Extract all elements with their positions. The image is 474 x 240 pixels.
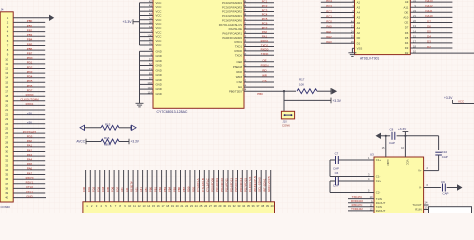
svg-text:15: 15 (152, 204, 156, 208)
svg-text:32: 32 (233, 204, 237, 208)
svg-text:18: 18 (166, 204, 170, 208)
U2 right pins with net labels (410, 1, 452, 3)
svg-text:PD3: PD3 (27, 70, 33, 74)
svg-text:35: 35 (247, 204, 251, 208)
svg-text:R1IN: R1IN (415, 208, 421, 212)
svg-text:R16: R16 (104, 136, 110, 140)
svg-text:A01: A01 (120, 187, 124, 192)
U5 VCC top pin 16 (404, 136, 406, 157)
svg-text:PA2: PA2 (27, 148, 33, 152)
svg-text:40: 40 (5, 196, 8, 200)
svg-text:A2: A2 (357, 0, 361, 4)
U5 GND top pin 15 (385, 136, 387, 157)
svg-text:PC4/GPIFADR4: PC4/GPIFADR4 (222, 1, 242, 5)
svg-text:33: 33 (237, 204, 241, 208)
svg-text:V-: V- (419, 186, 422, 190)
svg-text:29: 29 (5, 145, 8, 149)
svg-text:T1OUT: T1OUT (412, 203, 421, 207)
svg-text:PA1: PA1 (27, 144, 33, 148)
svg-text:+5V: +5V (27, 121, 32, 125)
connector J4 CON40 (0, 12, 13, 202)
svg-text:PC15/A15: PC15/A15 (23, 130, 37, 134)
svg-text:RD#: RD# (236, 70, 242, 74)
svg-text:PA7: PA7 (27, 171, 33, 175)
svg-text:+3.3V: +3.3V (123, 20, 133, 24)
wire tee to +3.3V port (284, 99, 331, 101)
svg-text:TXD1: TXD1 (235, 45, 243, 49)
svg-text:PC1/GPIFADR1: PC1/GPIFADR1 (222, 14, 242, 18)
svg-text:GND: GND (386, 160, 390, 166)
svg-text:32: 32 (5, 159, 8, 163)
svg-text:PB0: PB0 (27, 19, 33, 23)
svg-text:A11: A11 (125, 187, 129, 192)
svg-text:16: 16 (5, 85, 8, 89)
svg-text:CTL2/FLC: CTL2/FLC (206, 177, 210, 192)
svg-text:RXD0: RXD0 (26, 93, 34, 97)
svg-text:PB7: PB7 (182, 186, 186, 192)
svg-text:35: 35 (5, 173, 8, 177)
capacitor C8 CAP (386, 135, 390, 137)
svg-text:15: 15 (5, 80, 8, 84)
svg-text:PB2: PB2 (27, 28, 33, 32)
svg-text:10: 10 (5, 57, 8, 61)
svg-text:PB2: PB2 (158, 186, 162, 192)
svg-text:CTL0: CTL0 (26, 185, 33, 189)
svg-text:18: 18 (5, 94, 8, 98)
svg-text:PC0/GPIFADR0: PC0/GPIFADR0 (222, 18, 242, 22)
svg-text:13: 13 (5, 71, 8, 75)
svg-text:WR#: WR# (236, 75, 243, 79)
U1 VCC pins with bus (140, 2, 154, 4)
svg-text:PC2/GPIFADR2: PC2/GPIFADR2 (222, 10, 242, 14)
svg-text:+3.3V: +3.3V (131, 140, 140, 144)
svg-text:GND: GND (156, 59, 162, 63)
svg-text:PD5/FD13: PD5/FD13 (234, 178, 238, 192)
svg-text:PD5: PD5 (27, 135, 33, 139)
U5 data pins with net labels (348, 198, 374, 200)
svg-text:17: 17 (161, 204, 165, 208)
svg-text:C1-: C1- (376, 175, 381, 179)
svg-text:PC3: PC3 (326, 4, 332, 8)
resistor R16 680 (101, 139, 119, 144)
svg-text:DA13: DA13 (425, 0, 433, 3)
ground arrow right of C9 (457, 184, 463, 190)
svg-text:CAP: CAP (443, 192, 449, 196)
svg-text:21: 21 (180, 204, 184, 208)
U1 right pins lower group (244, 61, 274, 63)
svg-text:RXD1: RXD1 (261, 39, 269, 43)
svg-text:FD5: FD5 (106, 186, 110, 192)
svg-text:22: 22 (5, 113, 8, 117)
svg-text:PD7/FD15: PD7/FD15 (243, 178, 247, 192)
svg-text:26: 26 (204, 204, 208, 208)
svg-text:PD1: PD1 (27, 61, 33, 65)
svg-text:RDY0: RDY0 (26, 176, 34, 180)
wire C10 to U5 V+ pin 2 (424, 170, 439, 172)
svg-text:30: 30 (223, 204, 227, 208)
svg-text:PC1: PC1 (326, 14, 332, 18)
svg-text:TXD0-R2: TXD0-R2 (351, 207, 363, 211)
svg-text:RXD1: RXD1 (235, 40, 243, 44)
svg-text:WAKEUP-N: WAKEUP-N (253, 176, 257, 192)
svg-text:PC5: PC5 (262, 17, 268, 21)
svg-text:CON6: CON6 (282, 124, 290, 128)
resistor R15 (101, 125, 119, 130)
svg-text:D6: D6 (427, 24, 431, 28)
svg-text:PD2/FD10: PD2/FD10 (220, 178, 224, 192)
svg-text:TXD0: TXD0 (261, 52, 269, 56)
U5 pin1 C1+ loop with capacitor C7 (338, 159, 374, 161)
svg-text:20: 20 (5, 103, 8, 107)
svg-text:RD1: RD1 (191, 186, 195, 192)
svg-text:FD3: FD3 (96, 186, 100, 192)
U1 right port pins upper group (244, 2, 274, 4)
svg-text:10K: 10K (299, 82, 304, 86)
connector J4 pins 1-40 with net labels (7, 16, 49, 20)
svg-text:CY7C68013-128AC: CY7C68013-128AC (157, 110, 188, 114)
svg-text:CS#: CS# (237, 80, 243, 84)
svg-text:DA10: DA10 (425, 14, 433, 18)
svg-text:14: 14 (5, 76, 8, 80)
svg-text:RD: RD (262, 69, 266, 73)
svg-text:PB6: PB6 (177, 186, 181, 192)
svg-text:A31: A31 (134, 187, 138, 192)
svg-text:V+: V+ (418, 169, 422, 173)
svg-text:C2+: C2+ (376, 179, 382, 183)
svg-text:39: 39 (5, 191, 8, 195)
svg-text:25: 25 (199, 204, 203, 208)
svg-text:27: 27 (5, 136, 8, 140)
svg-text:RESET#: RESET# (130, 181, 134, 192)
svg-text:+5V: +5V (27, 111, 32, 115)
svg-text:31: 31 (228, 204, 232, 208)
svg-text:A51: A51 (144, 187, 148, 192)
svg-text:PA5: PA5 (27, 162, 33, 166)
svg-text:24: 24 (5, 122, 8, 126)
svg-text:OE: OE (404, 10, 408, 14)
svg-text:17: 17 (5, 90, 8, 94)
svg-text:D6: D6 (405, 31, 409, 35)
svg-text:D7: D7 (427, 19, 431, 23)
svg-text:CAP: CAP (333, 166, 339, 170)
svg-text:D2: D2 (427, 45, 431, 49)
svg-text:A10: A10 (403, 16, 408, 20)
svg-text:GND: GND (156, 83, 162, 87)
svg-text:26: 26 (5, 131, 8, 135)
svg-text:U3: U3 (370, 153, 374, 157)
power port +3.3V near R17 (330, 98, 332, 104)
svg-text:13: 13 (142, 204, 146, 208)
svg-text:37: 37 (256, 204, 260, 208)
power port +3.3V at U5 VCC (404, 135, 406, 137)
svg-text:PD6: PD6 (27, 84, 33, 88)
svg-text:12: 12 (5, 67, 8, 71)
wire R15 to port (119, 127, 131, 129)
svg-text:A9: A9 (405, 0, 409, 4)
svg-text:PD0: PD0 (27, 56, 33, 60)
svg-text:GND: GND (156, 64, 162, 68)
svg-text:CLKOUT24: CLKOUT24 (248, 176, 252, 192)
svg-text:D5: D5 (427, 30, 431, 34)
svg-text:PA3: PA3 (326, 40, 332, 44)
svg-text:11: 11 (133, 204, 136, 208)
svg-text:CE: CE (404, 21, 408, 25)
svg-text:PB6: PB6 (27, 47, 33, 51)
svg-text:PD6/FD14: PD6/FD14 (239, 178, 243, 192)
svg-text:VCC: VCC (458, 100, 464, 104)
svg-text:20: 20 (176, 204, 180, 208)
svg-text:PD1/FD09: PD1/FD09 (215, 178, 219, 192)
svg-text:A11: A11 (404, 5, 409, 9)
svg-text:57: 57 (149, 58, 153, 62)
U2 VSS ground symbol (352, 47, 354, 49)
svg-text:A1: A1 (357, 26, 361, 30)
svg-text:PSEN: PSEN (261, 64, 269, 68)
svg-text:PSEN#: PSEN# (233, 65, 243, 69)
jumper J5 CON6 (281, 111, 294, 119)
svg-text:GND: GND (156, 78, 162, 82)
svg-text:R17: R17 (299, 77, 305, 81)
svg-text:A41: A41 (139, 187, 143, 192)
svg-text:A3: A3 (357, 16, 361, 20)
svg-text:A4: A4 (357, 11, 361, 15)
svg-text:GND: GND (156, 92, 162, 96)
svg-text:PB0/T2EX: PB0/T2EX (229, 89, 242, 93)
svg-text:D2: D2 (405, 51, 409, 55)
ground arrow left at U5 (376, 133, 382, 139)
svg-text:PC4: PC4 (262, 13, 268, 17)
svg-text:D5: D5 (405, 36, 409, 40)
U5 T1OUT R1IN pins to DB9 (424, 204, 429, 206)
wire U1 pin 114 to node A (244, 90, 284, 92)
svg-text:+3.3V: +3.3V (444, 96, 453, 100)
svg-text:PA0: PA0 (326, 25, 332, 29)
port arrow on J4 pin 1 net (49, 15, 54, 21)
svg-text:PC0: PC0 (326, 20, 332, 24)
svg-text:76: 76 (149, 42, 153, 46)
svg-text:C9: C9 (441, 180, 445, 184)
svg-text:PB4: PB4 (27, 38, 33, 42)
U5 V- pin 6 with capacitor C9 (424, 187, 442, 189)
svg-text:RD0: RD0 (187, 186, 191, 192)
svg-text:680R: 680R (104, 143, 111, 147)
svg-text:38: 38 (5, 186, 8, 190)
svg-text:CAP: CAP (333, 183, 339, 187)
wire to right edge (453, 103, 474, 105)
svg-text:INT-SDA1: INT-SDA1 (262, 178, 266, 192)
svg-text:FD6: FD6 (111, 186, 115, 192)
wire resistor to port (317, 90, 331, 92)
svg-text:PB4: PB4 (168, 186, 172, 192)
svg-text:110: 110 (148, 86, 153, 90)
wire node A down to jumper (283, 91, 285, 111)
svg-text:PB0: PB0 (149, 186, 153, 192)
svg-text:37: 37 (5, 182, 8, 186)
connector DB9 body (cut off) (429, 207, 472, 217)
svg-text:PA0: PA0 (27, 139, 33, 143)
svg-text:34: 34 (5, 168, 8, 172)
svg-text:A5: A5 (357, 21, 361, 25)
svg-text:PB1: PB1 (27, 24, 33, 28)
svg-text:33: 33 (5, 163, 8, 167)
svg-text:D3: D3 (427, 40, 431, 44)
svg-text:23: 23 (190, 204, 194, 208)
svg-text:FD0: FD0 (82, 186, 86, 192)
svg-text:TXD1: TXD1 (261, 43, 269, 47)
svg-text:D4: D4 (405, 41, 409, 45)
svg-text:25: 25 (5, 126, 8, 130)
op IC U1 CY7C68013-128AC body (153, 0, 244, 108)
svg-text:AVCC: AVCC (76, 140, 85, 144)
svg-text:29: 29 (218, 204, 222, 208)
ground symbol below U1 GND bus (136, 102, 144, 104)
svg-text:A0: A0 (357, 31, 361, 35)
svg-text:22: 22 (185, 204, 189, 208)
svg-text:34: 34 (242, 204, 246, 208)
svg-text:PA0: PA0 (262, 30, 268, 34)
svg-text:38: 38 (261, 204, 265, 208)
svg-text:GND: GND (26, 194, 32, 198)
svg-text:C6: C6 (335, 171, 339, 175)
svg-text:OE: OE (262, 59, 266, 63)
wire node A to resistor (284, 90, 296, 92)
svg-text:PA6: PA6 (27, 167, 33, 171)
svg-text:GND: GND (156, 73, 162, 77)
svg-text:62: 62 (149, 62, 153, 66)
svg-text:83: 83 (149, 72, 153, 76)
node A junction (283, 90, 285, 92)
svg-text:C10: C10 (442, 150, 448, 154)
svg-text:39: 39 (266, 204, 270, 208)
svg-text:GND: GND (156, 87, 162, 91)
svg-text:D7: D7 (405, 26, 409, 30)
svg-text:PD5: PD5 (27, 79, 33, 83)
wire port to R15 (85, 127, 102, 129)
svg-text:19: 19 (171, 204, 175, 208)
svg-text:97: 97 (149, 76, 153, 80)
svg-text:PD4: PD4 (27, 75, 33, 79)
svg-text:PA1/FIFOADR1: PA1/FIFOADR1 (222, 32, 242, 36)
svg-text:36: 36 (5, 177, 8, 181)
wire VCC node to C10 branch (405, 135, 438, 137)
svg-text:DA12: DA12 (425, 4, 433, 8)
svg-text:114: 114 (148, 91, 153, 95)
svg-text:PC2: PC2 (326, 9, 332, 13)
svg-text:WR: WR (262, 74, 267, 78)
svg-text:28: 28 (214, 204, 218, 208)
svg-text:GND: GND (156, 54, 162, 58)
connector J2 40-pin header body (83, 202, 275, 215)
svg-text:R2OUT: R2OUT (376, 209, 386, 213)
svg-text:D1: D1 (357, 41, 361, 45)
svg-text:FD7: FD7 (115, 186, 119, 192)
svg-text:GND-VCC5: GND-VCC5 (267, 176, 271, 192)
svg-text:CON40: CON40 (1, 205, 11, 209)
svg-text:40: 40 (271, 204, 275, 208)
svg-text:R15: R15 (105, 123, 111, 127)
svg-text:C7: C7 (335, 152, 339, 156)
svg-text:PB3: PB3 (27, 33, 33, 37)
svg-text:C1+: C1+ (376, 158, 382, 162)
svg-text:PA3: PA3 (27, 153, 33, 157)
port arrow left (analog rail) (80, 125, 85, 130)
svg-text:PA2: PA2 (326, 35, 332, 39)
svg-text:36: 36 (252, 204, 256, 208)
svg-text:PD7: PD7 (27, 88, 33, 92)
svg-text:GND: GND (156, 49, 162, 53)
svg-text:PC7: PC7 (262, 26, 268, 30)
svg-text:CTL0/FLA: CTL0/FLA (196, 178, 200, 192)
svg-text:19: 19 (5, 99, 8, 103)
svg-text:A3: A3 (357, 5, 361, 9)
svg-text:27: 27 (209, 204, 213, 208)
wire AVCC to R16 (86, 141, 101, 143)
power port +3.3V right of R16 (128, 139, 130, 145)
svg-text:14: 14 (147, 204, 151, 208)
svg-text:12: 12 (138, 204, 142, 208)
IC U2 AT49LV001 body (355, 0, 411, 55)
svg-text:FD1: FD1 (87, 186, 91, 192)
svg-text:PB3: PB3 (163, 186, 167, 192)
resistor R17 10k (297, 89, 317, 94)
svg-text:VCC: VCC (156, 43, 162, 47)
svg-text:PD2: PD2 (27, 65, 33, 69)
svg-text:21: 21 (5, 108, 8, 112)
IC U5 RS232 transceiver body (374, 157, 424, 215)
svg-text:D4: D4 (427, 35, 431, 39)
svg-text:PB5: PB5 (27, 42, 33, 46)
svg-text:PC3: PC3 (262, 8, 268, 12)
svg-text:PD4/FD12: PD4/FD12 (229, 178, 233, 192)
svg-text:PB7: PB7 (27, 52, 33, 56)
svg-text:RDY1: RDY1 (26, 181, 34, 185)
U5 pin4 C2+ loop with capacitor C6 (338, 180, 374, 182)
svg-text:FD2: FD2 (92, 186, 96, 192)
svg-text:+3.3V: +3.3V (398, 127, 407, 131)
svg-text:D3: D3 (405, 46, 409, 50)
U2 left pins with net labels (321, 1, 355, 3)
svg-text:J4: J4 (1, 7, 4, 11)
svg-text:GND: GND (156, 68, 162, 72)
svg-text:D0: D0 (357, 36, 361, 40)
svg-text:28: 28 (5, 140, 8, 144)
svg-text:PA2/SLOE: PA2/SLOE (229, 27, 242, 31)
capacitor C10 CAP (435, 151, 442, 153)
svg-text:PC4: PC4 (326, 0, 332, 3)
svg-text:30: 30 (5, 150, 8, 154)
port arrow right of R17 (330, 88, 332, 94)
svg-text:102: 102 (147, 81, 152, 85)
svg-text:CLKOUT/24M: CLKOUT/24M (20, 98, 39, 102)
svg-text:PB1: PB1 (153, 186, 157, 192)
svg-text:CS: CS (262, 79, 266, 83)
svg-text:PD0/FD08: PD0/FD08 (210, 178, 214, 192)
svg-text:PA4: PA4 (27, 158, 33, 162)
svg-text:PB0: PB0 (257, 92, 263, 96)
svg-text:VSS: VSS (357, 47, 363, 51)
svg-text:OE#: OE# (236, 60, 242, 64)
svg-text:C8: C8 (390, 128, 394, 132)
svg-text:CAP: CAP (389, 141, 395, 145)
port arrow right (to +3.3V) (130, 125, 132, 130)
svg-text:PA1: PA1 (326, 30, 332, 34)
svg-text:AT91LV-T001: AT91LV-T001 (360, 56, 379, 60)
svg-text:SCL-SDA0: SCL-SDA0 (258, 177, 262, 192)
svg-text:+3.3V: +3.3V (333, 99, 342, 103)
svg-text:RXD1: RXD1 (26, 102, 34, 106)
svg-text:16: 16 (157, 204, 161, 208)
svg-text:23: 23 (5, 117, 8, 121)
